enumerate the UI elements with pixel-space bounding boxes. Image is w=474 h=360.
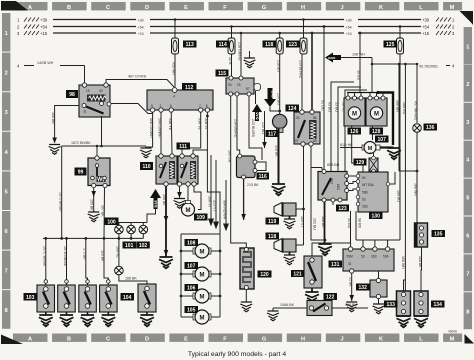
svg-text:135: 135 <box>434 232 443 238</box>
svg-text:M: M <box>200 250 205 256</box>
dangling wires from 112 area <box>208 155 229 230</box>
svg-text:128: 128 <box>372 129 381 135</box>
switch 103d <box>100 285 118 315</box>
connector 133 <box>384 291 411 316</box>
wire 116 down 215 BK <box>241 179 259 220</box>
svg-text:8: 8 <box>206 104 208 108</box>
horn 119 <box>266 203 304 226</box>
wire 130 right pin <box>390 172 395 184</box>
svg-text:125: 125 <box>386 42 395 48</box>
bus +54 <box>17 25 455 30</box>
svg-text:53S: 53S <box>330 178 334 184</box>
svg-text:3: 3 <box>466 120 469 126</box>
svg-text:+30: +30 <box>346 19 352 23</box>
svg-text:115: 115 <box>218 71 226 77</box>
svg-text:123: 123 <box>289 42 298 48</box>
svg-text:30: 30 <box>99 89 103 93</box>
svg-text:Typical early 900 models - par: Typical early 900 models - part 4 <box>188 351 286 358</box>
wire 112 pin2 to relay 110 <box>158 112 162 154</box>
svg-text:M: M <box>200 316 205 322</box>
svg-text:K: K <box>379 336 383 342</box>
ground below 121 <box>305 292 319 303</box>
switch 104 <box>138 284 156 315</box>
svg-text:133: 133 <box>387 302 396 308</box>
arrow 5/A5 up near 115 <box>252 91 262 121</box>
svg-text:104: 104 <box>123 295 132 301</box>
corner mark bottom-right <box>465 334 474 344</box>
wire 112 pin7 to relay 111 <box>182 112 201 154</box>
motor rail left <box>180 234 220 317</box>
connector 134 <box>414 291 445 316</box>
svg-text:108A BK: 108A BK <box>280 303 295 307</box>
motor 106 <box>181 284 220 303</box>
svg-text:50B GN/WH: 50B GN/WH <box>149 118 153 138</box>
switch 103b <box>58 285 75 315</box>
svg-text:30: 30 <box>296 116 300 120</box>
svg-text:5: 5 <box>5 189 8 195</box>
thick wire to big ground center <box>274 128 278 184</box>
svg-text:E: E <box>184 336 188 342</box>
svg-text:M: M <box>450 5 455 11</box>
wire relay 110 thick to ground <box>162 186 169 257</box>
svg-text:6: 6 <box>170 104 172 108</box>
ground below 110 <box>159 257 173 268</box>
svg-text:8: 8 <box>466 309 469 315</box>
relay 110 <box>140 154 177 186</box>
svg-text:188 WH: 188 WH <box>414 183 418 196</box>
svg-text:53 BU: 53 BU <box>335 102 339 112</box>
motor bundle bar <box>347 91 393 172</box>
top letter strip <box>13 2 462 11</box>
svg-text:108: 108 <box>187 241 196 247</box>
lead 85A BN <box>311 163 340 170</box>
corner mark top-right <box>459 11 473 25</box>
big ground below pump group <box>318 244 332 255</box>
label 101 <box>123 242 137 249</box>
svg-text:+15: +15 <box>346 32 352 36</box>
svg-text:51 OG: 51 OG <box>321 100 325 111</box>
wire lamp 104 branch <box>116 238 120 266</box>
svg-text:218 GN/RD: 218 GN/RD <box>238 42 242 61</box>
svg-text:A: A <box>28 336 32 342</box>
svg-text:53B: 53B <box>362 191 368 195</box>
svg-text:5: 5 <box>466 196 469 202</box>
svg-text:53A: 53A <box>383 255 390 259</box>
svg-text:98 RD: 98 RD <box>358 218 362 229</box>
svg-text:M: M <box>450 336 455 342</box>
svg-text:87: 87 <box>246 87 250 91</box>
wire +54 tap at 360 to motor bundle <box>357 32 362 93</box>
svg-text:85A BN: 85A BN <box>327 163 340 167</box>
svg-text:122: 122 <box>326 295 335 301</box>
switch 121 <box>291 256 322 292</box>
relay 124 <box>286 105 321 147</box>
ground below 103d <box>101 315 115 326</box>
svg-text:+30: +30 <box>40 18 48 23</box>
relay 99 <box>75 156 111 188</box>
wire lamp 136 down to 135 <box>399 133 418 224</box>
svg-text:M: M <box>200 273 205 279</box>
svg-text:113: 113 <box>186 42 194 48</box>
switch 122 <box>273 293 368 316</box>
svg-text:215 BK: 215 BK <box>247 183 259 187</box>
corner mark top-left <box>1 1 28 11</box>
fuse 118 <box>263 32 284 114</box>
fuse 125 <box>384 25 404 240</box>
svg-text:188 BU: 188 BU <box>397 190 401 202</box>
svg-text:108 YE: 108 YE <box>116 246 120 258</box>
svg-text:32 B: 32 B <box>228 57 232 65</box>
ground hook near 115 <box>244 51 256 68</box>
wire 132 to ground <box>378 299 380 305</box>
wire down to 133 <box>401 256 405 291</box>
svg-text:1672 BN/BK: 1672 BN/BK <box>71 141 91 145</box>
label 103 <box>24 293 38 301</box>
svg-text:109 VT: 109 VT <box>300 216 304 228</box>
svg-text:J: J <box>340 336 343 342</box>
svg-text:+15: +15 <box>422 31 430 36</box>
ground below 131 <box>346 302 358 312</box>
ground below 112 <box>140 148 152 158</box>
svg-text:M: M <box>200 295 205 301</box>
svg-text:7: 7 <box>5 269 8 275</box>
svg-text:7: 7 <box>466 271 469 277</box>
relay 132 <box>356 271 387 299</box>
svg-text:5/A5: 5/A5 <box>255 112 259 119</box>
lamp stubs to rail <box>119 234 143 238</box>
svg-text:110: 110 <box>142 164 150 170</box>
svg-text:108 BK: 108 BK <box>162 194 166 206</box>
svg-text:86: 86 <box>313 116 317 120</box>
lamp 100a <box>115 225 124 234</box>
svg-text:214 BU: 214 BU <box>276 93 280 105</box>
svg-text:213 BU/RD: 213 BU/RD <box>251 119 255 138</box>
ground below horn 119 <box>284 219 296 229</box>
svg-text:A: A <box>28 5 32 11</box>
svg-text:1: 1 <box>466 45 469 51</box>
wire relay 111 left pin to ground <box>177 186 182 198</box>
svg-text:14GB WH: 14GB WH <box>37 61 54 65</box>
wire lamp to switch 104 <box>119 275 147 285</box>
wire relay 99 right pin to switch rail <box>101 188 105 239</box>
svg-text:117: 117 <box>268 132 276 138</box>
svg-text:F: F <box>223 336 227 342</box>
svg-text:188 RD: 188 RD <box>402 102 406 115</box>
svg-text:M: M <box>368 146 373 152</box>
svg-text:INT 53A: INT 53A <box>362 183 375 187</box>
svg-text:98A RD/WH: 98A RD/WH <box>223 200 227 220</box>
svg-text:118 BK: 118 BK <box>101 250 105 262</box>
ground below 104 <box>140 315 154 326</box>
svg-text:F: F <box>223 5 227 11</box>
motor 105 <box>181 306 220 324</box>
fuse 123 <box>286 18 307 112</box>
svg-text:457 WH/RD: 457 WH/RD <box>414 101 418 121</box>
svg-text:48648: 48648 <box>448 329 457 333</box>
svg-text:108 BK: 108 BK <box>418 256 422 268</box>
wires 130 area down to 131 <box>347 211 388 249</box>
label 104 <box>121 293 135 301</box>
svg-text:53M: 53M <box>337 183 341 190</box>
svg-text:31: 31 <box>83 110 87 114</box>
svg-text:167B BN/BK: 167B BN/BK <box>63 246 67 267</box>
svg-text:114: 114 <box>219 42 227 48</box>
wire fuse 125 to 131 pin4 <box>388 240 400 249</box>
svg-text:2: 2 <box>466 82 469 88</box>
wire 124 pin85 down to ground <box>311 146 325 240</box>
fuse 113 <box>172 18 197 88</box>
svg-text:K: K <box>379 5 383 11</box>
svg-text:H: H <box>301 336 305 342</box>
wire 131 pin31 to ground <box>348 273 354 301</box>
svg-text:+54: +54 <box>138 26 144 30</box>
wire 112 pin6 to relay 110 <box>168 112 172 154</box>
horn 118 <box>266 233 304 256</box>
svg-text:+54: +54 <box>422 25 430 30</box>
svg-text:218 BU: 218 BU <box>276 60 280 72</box>
svg-text:M: M <box>186 208 191 214</box>
svg-text:167 BK: 167 BK <box>101 205 105 217</box>
svg-text:31 BK: 31 BK <box>348 277 352 287</box>
connector 135 <box>415 223 446 247</box>
svg-text:192 BU: 192 BU <box>312 218 316 230</box>
wire rail drop 4 <box>101 238 111 285</box>
svg-text:+30: +30 <box>138 19 144 23</box>
svg-text:171 BK: 171 BK <box>82 248 86 260</box>
svg-text:G: G <box>262 336 266 342</box>
relay box left of 130 <box>318 170 349 203</box>
left number strip <box>2 13 10 329</box>
svg-text:6: 6 <box>5 229 8 235</box>
svg-text:100: 100 <box>107 219 116 225</box>
svg-text:106: 106 <box>187 286 196 292</box>
component 115 <box>216 70 261 97</box>
svg-text:219 BU/RD: 219 BU/RD <box>299 60 303 79</box>
svg-text:53: 53 <box>362 198 366 202</box>
svg-text:456 WH: 456 WH <box>172 62 176 75</box>
svg-text:B: B <box>67 5 71 11</box>
svg-text:134: 134 <box>434 302 443 308</box>
motor 107 <box>340 136 394 154</box>
connector 120 <box>227 96 271 290</box>
svg-text:G/M1: G/M1 <box>328 56 336 60</box>
motor 107b <box>181 262 220 281</box>
svg-text:112: 112 <box>185 85 193 91</box>
svg-text:467 GY/RD: 467 GY/RD <box>128 75 147 79</box>
right number strip <box>464 27 472 329</box>
svg-text:+15: +15 <box>40 31 48 36</box>
big ground right of motor 107 <box>387 148 401 159</box>
wire pump group to big ground <box>321 201 327 244</box>
svg-text:120: 120 <box>260 272 269 278</box>
svg-text:1: 1 <box>5 31 8 37</box>
svg-text:167C BN/BK: 167C BN/BK <box>42 246 46 267</box>
svg-text:87: 87 <box>295 139 299 143</box>
svg-text:107: 107 <box>187 264 196 270</box>
svg-text:C: C <box>106 5 110 11</box>
svg-text:15: 15 <box>86 89 90 93</box>
label 102 <box>136 242 150 249</box>
ground below relay 91 <box>49 145 61 155</box>
svg-text:3: 3 <box>5 110 8 116</box>
svg-text:31B: 31B <box>362 205 368 209</box>
component 117 <box>266 114 287 137</box>
ground below 132 <box>373 304 385 314</box>
ground below 133 <box>397 316 411 327</box>
wire relay 91 to ground left <box>51 106 79 144</box>
wire rail drop 2 <box>63 238 68 285</box>
corner mark bottom-left <box>1 335 23 345</box>
wire 112 pin8 to relay 111 and motor rail <box>193 112 220 234</box>
svg-text:8: 8 <box>5 308 8 314</box>
svg-text:108 BK: 108 BK <box>345 303 357 307</box>
component 116 <box>237 154 270 180</box>
svg-text:5/A6: 5/A6 <box>271 91 275 98</box>
svg-text:C: C <box>106 336 110 342</box>
wire relay 91 right pin to connector 112 <box>111 104 153 114</box>
ground below 99 left <box>88 212 100 222</box>
svg-text:J: J <box>340 5 343 11</box>
svg-text:166 BN: 166 BN <box>51 112 55 124</box>
lamp 102 <box>139 225 148 234</box>
bus +15 <box>17 31 455 36</box>
wire 1672 BN/BK long vertical <box>58 146 62 238</box>
wire 121 to 131 pin1 <box>312 243 351 256</box>
ground left of switch 122 <box>267 311 279 321</box>
wire line4 right taps <box>396 63 419 291</box>
svg-text:105: 105 <box>187 308 196 314</box>
svg-text:93 BU: 93 BU <box>328 102 332 112</box>
svg-text:129: 129 <box>356 160 365 166</box>
wire 120 to ground <box>245 290 247 303</box>
svg-text:+54: +54 <box>346 26 352 30</box>
svg-text:101: 101 <box>125 243 134 249</box>
svg-text:54: 54 <box>362 176 366 180</box>
svg-text:30: 30 <box>228 83 232 87</box>
wire relay 91 bottom to relay 99 <box>62 116 103 147</box>
svg-text:93A YE: 93A YE <box>197 118 201 131</box>
ground below 103c <box>81 315 95 326</box>
svg-text:M: M <box>352 112 357 118</box>
svg-text:2: 2 <box>160 104 162 108</box>
wires relay box to 130 <box>349 176 358 191</box>
ground below 103b <box>60 315 74 326</box>
svg-text:107: 107 <box>378 137 387 143</box>
relay 131 <box>329 247 395 273</box>
wire relay 99 pin to ground left <box>90 188 96 213</box>
wire 124 pin87 down to horns <box>300 146 305 245</box>
svg-text:21A BU/RD: 21A BU/RD <box>234 119 238 138</box>
svg-text:118: 118 <box>268 234 276 240</box>
switch 103a <box>37 285 55 315</box>
wire 14GB WH down to relay 91 <box>84 66 86 83</box>
svg-text:99: 99 <box>78 170 84 176</box>
svg-text:155 BK: 155 BK <box>90 199 94 211</box>
switch rail <box>43 237 143 240</box>
svg-text:L: L <box>419 336 423 342</box>
svg-text:E: E <box>184 5 188 11</box>
wire relay 111 to motor 109 <box>187 186 189 202</box>
motor 126 <box>344 96 365 135</box>
svg-text:98: 98 <box>69 92 75 98</box>
svg-text:198 WH: 198 WH <box>352 53 365 57</box>
svg-text:2: 2 <box>5 71 8 77</box>
wire +15 tap to 115 <box>238 32 243 78</box>
svg-text:166 GN: 166 GN <box>227 150 231 163</box>
wire 112 pin5 to ground <box>146 112 153 148</box>
arrow 5/A5 up left <box>147 189 161 223</box>
big ground center <box>272 184 286 195</box>
svg-text:123: 123 <box>338 206 347 212</box>
svg-text:5: 5 <box>151 104 153 108</box>
svg-text:31: 31 <box>348 262 352 266</box>
wire 115 to 116 right <box>249 96 262 160</box>
svg-text:+15: +15 <box>138 32 144 36</box>
relay 111 <box>177 143 199 187</box>
svg-text:31 RD: 31 RD <box>347 218 351 229</box>
svg-text:109: 109 <box>197 215 206 221</box>
ground below 120 <box>240 302 252 312</box>
wire relay 99 top pin <box>96 145 146 156</box>
svg-text:6: 6 <box>466 234 469 240</box>
svg-text:103: 103 <box>26 295 35 301</box>
svg-text:118: 118 <box>265 42 273 48</box>
motor 128 <box>366 96 387 135</box>
svg-text:186 BK: 186 BK <box>125 277 137 281</box>
ground below 134 <box>414 316 428 327</box>
connector 112 <box>147 83 213 112</box>
svg-text:53: 53 <box>361 255 365 259</box>
svg-text:95.7823961: 95.7823961 <box>419 65 438 69</box>
svg-text:5/A5: 5/A5 <box>154 200 158 207</box>
wire 467 GY/RD from relay 91 to 112 top pin <box>106 75 174 88</box>
wire rail drop 1 <box>42 238 47 285</box>
lamp 104a <box>115 266 124 275</box>
svg-text:136: 136 <box>426 125 435 131</box>
svg-text:30A VT: 30A VT <box>208 196 212 209</box>
wire 135 down to 134 <box>418 247 422 291</box>
relay 91 <box>79 83 111 117</box>
svg-text:81D HE: 81D HE <box>340 143 353 147</box>
bus +30 <box>17 18 455 23</box>
ground below 111 <box>174 199 186 209</box>
svg-text:111: 111 <box>179 144 187 150</box>
svg-text:31B: 31B <box>371 255 377 259</box>
svg-text:119: 119 <box>268 219 276 225</box>
svg-text:4: 4 <box>173 95 175 99</box>
svg-text:+30: +30 <box>422 18 430 23</box>
svg-text:D: D <box>145 336 149 342</box>
svg-text:M: M <box>374 112 379 118</box>
svg-text:85: 85 <box>313 139 317 143</box>
svg-text:H: H <box>301 5 305 11</box>
svg-text:D: D <box>145 5 149 11</box>
relay 130 <box>356 172 390 220</box>
svg-text:188 BK: 188 BK <box>321 216 325 228</box>
svg-text:131: 131 <box>331 262 340 268</box>
label 98 <box>66 90 78 98</box>
ground below horn 118 <box>284 255 296 265</box>
svg-text:1672 BN/BK: 1672 BN/BK <box>58 192 62 212</box>
svg-text:L: L <box>419 5 423 11</box>
svg-text:188 BN: 188 BN <box>396 100 400 112</box>
svg-text:126: 126 <box>350 129 359 135</box>
svg-text:121: 121 <box>293 272 302 278</box>
svg-text:B: B <box>67 336 71 342</box>
wire relay 111 right pin down <box>194 186 201 210</box>
svg-text:50A GN/WH: 50A GN/WH <box>158 118 162 138</box>
svg-text:214 BU: 214 BU <box>261 122 265 134</box>
